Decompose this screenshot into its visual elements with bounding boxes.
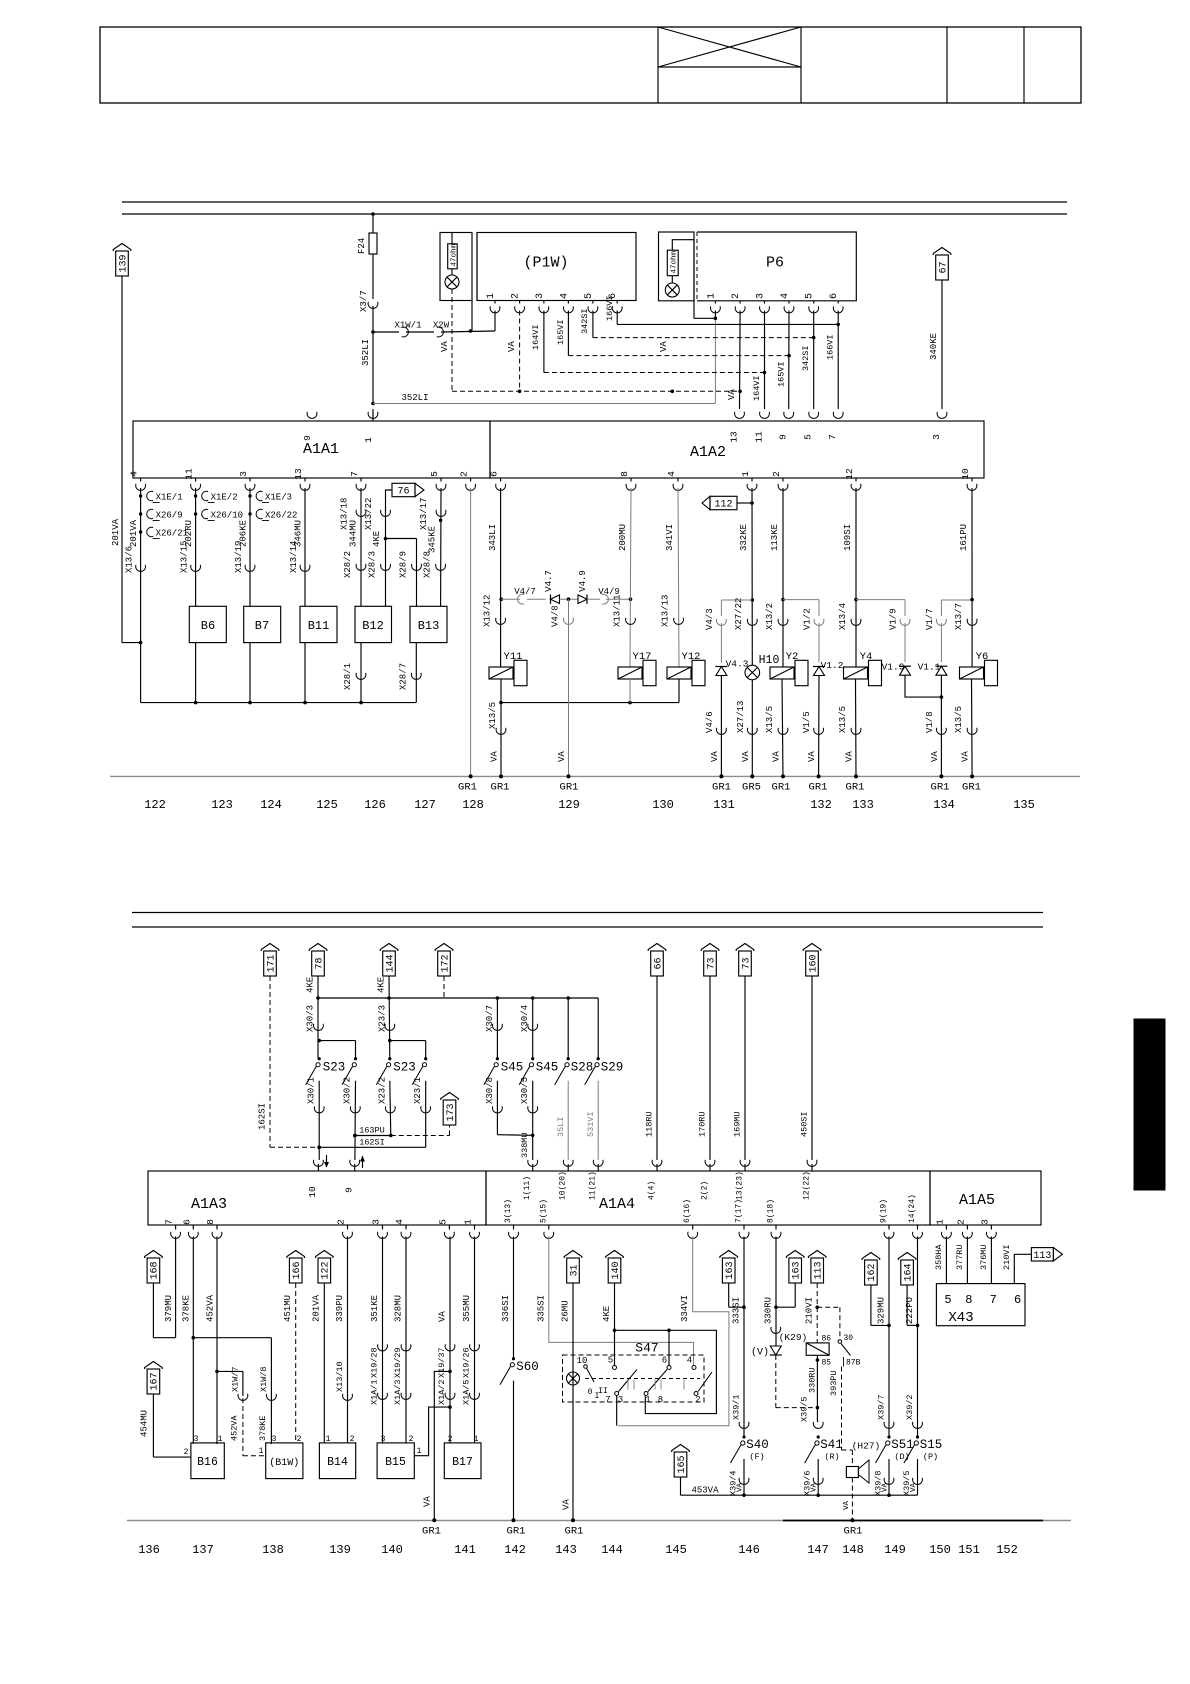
svg-text:8: 8 <box>658 1395 663 1405</box>
connector X13/12 <box>496 618 506 625</box>
svg-text:139: 139 <box>329 1543 351 1557</box>
wire 206KE pin3 <box>234 488 250 606</box>
svg-text:454MU: 454MU <box>139 1410 149 1437</box>
wire V1.9 to V1.1 ground <box>905 675 943 699</box>
svg-text:4: 4 <box>780 293 791 299</box>
wire X39/8 <box>874 1459 890 1496</box>
svg-text:GR1: GR1 <box>712 782 731 794</box>
svg-text:122: 122 <box>144 798 166 812</box>
svg-text:144: 144 <box>601 1543 623 1557</box>
ground labels GR1 <box>458 782 981 794</box>
svg-text:6: 6 <box>829 293 840 299</box>
wire 454MU to B16 pin2 <box>139 1394 191 1457</box>
svg-text:X30/8: X30/8 <box>485 1077 495 1104</box>
connector V4/9 <box>587 587 632 604</box>
svg-text:8: 8 <box>205 1219 216 1225</box>
connector X30/7 <box>492 1024 502 1031</box>
wire 210VI dashed <box>805 1283 819 1343</box>
svg-text:200MU: 200MU <box>618 524 628 551</box>
connector X13/4 <box>851 619 861 626</box>
arrow 31 <box>564 1251 582 1284</box>
connector X1E/2 <box>194 491 238 502</box>
svg-text:147: 147 <box>807 1543 829 1557</box>
wire 343LI pin6 <box>482 488 500 667</box>
arrow 122 <box>316 1251 334 1284</box>
svg-text:1(11): 1(11) <box>523 1176 532 1200</box>
svg-text:GR1: GR1 <box>560 782 579 794</box>
ground junctions <box>469 774 974 778</box>
svg-text:67: 67 <box>938 261 949 273</box>
sensor B17 <box>444 1435 481 1479</box>
arrow 67 <box>933 248 951 281</box>
svg-text:5: 5 <box>805 293 816 299</box>
connector X30/8 <box>492 1106 502 1113</box>
svg-text:172: 172 <box>440 954 451 972</box>
svg-text:VA: VA <box>562 1499 572 1510</box>
switch S45 second <box>519 1057 558 1085</box>
wire 358HA <box>934 1237 947 1284</box>
wire 335SI to S47 contact4 <box>536 1237 693 1366</box>
svg-text:149: 149 <box>884 1543 906 1557</box>
valve Y4 <box>844 651 882 686</box>
svg-text:345KE: 345KE <box>428 526 438 553</box>
connector V1/2 <box>803 608 824 662</box>
svg-text:330RU: 330RU <box>808 1367 818 1393</box>
svg-text:X39/5: X39/5 <box>800 1396 810 1422</box>
unit A1A5 box <box>930 1171 1041 1225</box>
svg-text:A1A3: A1A3 <box>191 1196 227 1213</box>
wire X39/6 <box>803 1459 819 1496</box>
ground rail top section <box>110 775 1080 777</box>
svg-text:B17: B17 <box>452 1456 473 1469</box>
P6 lamp box <box>659 232 695 301</box>
connector X13/22 <box>381 510 391 517</box>
connector X30/2 <box>350 1106 360 1113</box>
arrow 164 <box>898 1253 916 1286</box>
wire 4KE to S47 contact5 <box>602 1283 616 1366</box>
svg-text:VA: VA <box>423 1496 433 1507</box>
svg-text:333SI: 333SI <box>732 1297 742 1324</box>
lamp H10 <box>745 654 779 680</box>
svg-text:V1.1: V1.1 <box>918 662 941 673</box>
connector X26/22 <box>248 509 297 520</box>
wire 164VI P1W pin3 <box>531 311 765 373</box>
wire X39/5 S15 <box>902 1459 918 1496</box>
node V1.2 tee <box>783 600 819 616</box>
wire P6 pin2 to A1A2 pin13 <box>727 311 740 410</box>
svg-text:X19/26: X19/26 <box>461 1347 471 1378</box>
wire P6 pin5 to A1A2 pin5 <box>801 311 816 410</box>
svg-text:3: 3 <box>535 293 546 299</box>
svg-text:118RU: 118RU <box>645 1111 655 1137</box>
svg-text:X19/37: X19/37 <box>437 1347 447 1378</box>
svg-text:7: 7 <box>164 1219 175 1225</box>
connector X39/6 <box>813 1478 823 1485</box>
svg-text:X13/22: X13/22 <box>364 498 374 530</box>
svg-text:143: 143 <box>555 1543 577 1557</box>
svg-text:379MU: 379MU <box>164 1295 174 1322</box>
sensor B15 <box>377 1435 414 1479</box>
wire 35LI <box>556 1081 568 1160</box>
connector X26/21 <box>139 527 188 538</box>
svg-text:342SI: 342SI <box>801 345 811 371</box>
switch S45 first <box>484 1057 523 1085</box>
wire 451MU dashed <box>283 1283 296 1443</box>
connector X39/1 <box>739 1422 749 1429</box>
wire B7 to bus <box>248 643 252 705</box>
svg-text:10: 10 <box>960 468 971 480</box>
svg-text:452VA: 452VA <box>205 1294 215 1322</box>
svg-text:6(16): 6(16) <box>683 1199 692 1223</box>
valve Y6 <box>960 651 998 686</box>
connector X39/5 S41 <box>813 1421 823 1428</box>
connector X13/10 <box>343 1394 353 1401</box>
diode V4.9 <box>578 570 588 604</box>
node S23a split <box>317 1039 355 1058</box>
svg-text:162SI: 162SI <box>258 1103 268 1130</box>
node V diode tee <box>499 597 520 601</box>
connector X30/5 <box>528 1106 538 1113</box>
svg-text:112: 112 <box>714 500 732 511</box>
wire S45a upper <box>485 998 498 1058</box>
svg-text:VA: VA <box>807 751 817 762</box>
svg-text:4: 4 <box>394 1219 405 1225</box>
svg-text:141: 141 <box>454 1543 476 1557</box>
svg-text:X28/8: X28/8 <box>423 551 433 578</box>
wire X23/1 <box>413 1077 426 1147</box>
wire 201VA from arrow 139 <box>111 276 142 644</box>
svg-text:376MU: 376MU <box>979 1244 989 1270</box>
wire 172 dashed <box>443 976 445 998</box>
connector X26/10 <box>194 509 243 520</box>
svg-text:X27/22: X27/22 <box>734 598 744 630</box>
svg-text:X30/2: X30/2 <box>342 1077 352 1104</box>
node V4.3 tee <box>721 600 752 616</box>
diode V1.2 <box>813 660 844 676</box>
wire VA pin5 to B17 <box>437 1237 452 1443</box>
connector X39/8 <box>884 1478 894 1485</box>
sensor B13 <box>410 606 447 642</box>
wire VA P1W pin2 dashed <box>507 311 521 394</box>
svg-text:2: 2 <box>184 1448 189 1457</box>
wire 328MU pin4 to B15 <box>393 1237 406 1443</box>
svg-text:X1A/3: X1A/3 <box>393 1379 403 1405</box>
connector X13/18 <box>356 510 366 517</box>
unit A1A2 box <box>490 421 984 478</box>
svg-text:VA: VA <box>843 1500 851 1510</box>
svg-text:13: 13 <box>729 431 740 443</box>
ground junctions bottom <box>432 1518 854 1522</box>
P1W resistor 47ohm <box>448 233 459 269</box>
arrow 167 <box>145 1362 163 1395</box>
svg-text:GR1: GR1 <box>931 782 950 794</box>
svg-text:X13/5: X13/5 <box>954 706 964 733</box>
svg-text:2: 2 <box>511 293 522 299</box>
svg-text:378KE: 378KE <box>182 1295 192 1322</box>
arrow 172 <box>435 944 453 977</box>
wire 26MU through S47 lamp <box>561 1283 574 1521</box>
wire 329MU <box>876 1237 889 1438</box>
svg-text:1: 1 <box>463 1219 474 1225</box>
svg-text:1: 1 <box>645 1395 650 1405</box>
svg-text:VA: VA <box>507 341 517 352</box>
A1A1 top pin 9 <box>302 412 317 441</box>
S47 pole C <box>684 1356 712 1406</box>
connector X1W/7 <box>238 1394 248 1401</box>
svg-text:GR1: GR1 <box>844 1526 863 1538</box>
wire VA ground drop left <box>423 1371 451 1520</box>
wire 452VA dashed into B1W pin1 <box>243 1398 266 1456</box>
svg-text:3: 3 <box>381 1435 386 1444</box>
svg-text:X1A/2: X1A/2 <box>437 1379 447 1405</box>
wire 118RU <box>645 976 658 1160</box>
wire 200MU pin8 <box>612 488 631 667</box>
wire 161PU pin10 <box>954 488 972 667</box>
svg-text:170RU: 170RU <box>698 1111 708 1137</box>
svg-text:VA: VA <box>710 751 720 762</box>
svg-text:X1A/1: X1A/1 <box>369 1379 379 1405</box>
arrow 160 <box>803 944 821 977</box>
unit A1A1 box <box>133 421 490 478</box>
svg-text:GR1: GR1 <box>962 782 981 794</box>
wire 333SI <box>732 1237 745 1438</box>
switch S15 <box>904 1435 942 1463</box>
svg-text:4: 4 <box>666 471 677 477</box>
wire 109SI pin12 <box>838 488 858 667</box>
svg-text:166: 166 <box>292 1261 303 1279</box>
arrow 171 <box>261 944 279 977</box>
svg-text:358HA: 358HA <box>934 1244 944 1270</box>
svg-text:B15: B15 <box>385 1456 406 1469</box>
arrow 78 <box>309 944 327 977</box>
sensor B11 <box>300 606 337 642</box>
svg-text:169MU: 169MU <box>733 1111 743 1137</box>
wire 202RU pin11 <box>180 488 196 606</box>
svg-text:X1E/1: X1E/1 <box>156 493 183 503</box>
connector X13/13 <box>674 618 684 625</box>
page thumb index mark <box>1134 1019 1165 1190</box>
svg-text:161PU: 161PU <box>959 524 969 551</box>
svg-text:4: 4 <box>129 471 140 477</box>
switch S41 <box>805 1435 843 1463</box>
svg-text:(P1W): (P1W) <box>523 255 568 272</box>
relay ground bus <box>501 679 679 704</box>
svg-text:7: 7 <box>827 434 838 440</box>
wire X30/8 <box>485 1077 533 1135</box>
svg-text:V1/2: V1/2 <box>803 608 813 630</box>
A1A3 top pin 9 <box>344 1156 366 1193</box>
svg-text:GR1: GR1 <box>458 782 477 794</box>
svg-text:A1A1: A1A1 <box>303 441 339 458</box>
wire P6 pin6 to A1A2 pin7 <box>826 311 841 410</box>
wire 344MU pin7 <box>340 488 362 606</box>
svg-text:5: 5 <box>803 434 814 440</box>
svg-text:2: 2 <box>695 1395 700 1405</box>
svg-text:Y12: Y12 <box>682 651 701 663</box>
svg-text:V4.7: V4.7 <box>544 570 554 592</box>
svg-text:8: 8 <box>965 1293 972 1307</box>
svg-text:(F): (F) <box>749 1452 764 1462</box>
svg-text:X30/1: X30/1 <box>307 1077 317 1104</box>
svg-text:5: 5 <box>944 1293 951 1307</box>
wire Y6 ground <box>954 679 977 776</box>
connector X1E/3 <box>248 491 292 502</box>
svg-text:166VI: 166VI <box>826 334 836 360</box>
wire Y17 to bus <box>629 679 631 703</box>
svg-text:168: 168 <box>150 1261 161 1279</box>
svg-text:150: 150 <box>929 1543 951 1557</box>
svg-text:3: 3 <box>931 434 942 440</box>
diode V <box>751 1346 782 1359</box>
svg-text:3: 3 <box>756 293 767 299</box>
connector X28/9 <box>398 551 421 578</box>
svg-text:146: 146 <box>738 1543 760 1557</box>
wire 169MU <box>733 976 746 1160</box>
svg-text:(R): (R) <box>824 1452 839 1462</box>
svg-text:122: 122 <box>321 1261 332 1279</box>
svg-text:173: 173 <box>446 1103 457 1121</box>
wire X39/4 <box>729 1459 745 1496</box>
diode V4.3 <box>715 659 748 676</box>
svg-text:138: 138 <box>262 1543 284 1557</box>
svg-text:73: 73 <box>741 957 752 969</box>
wire 165VI P1W pin4 <box>556 311 789 356</box>
svg-text:3: 3 <box>371 1219 382 1225</box>
svg-text:X13/13: X13/13 <box>660 595 670 627</box>
svg-text:342SI: 342SI <box>580 308 590 334</box>
connector X30/1 <box>314 1106 324 1113</box>
valve Y17 <box>618 651 656 686</box>
svg-text:7: 7 <box>349 471 360 477</box>
svg-text:339PU: 339PU <box>335 1295 345 1322</box>
connector X1A/5 <box>470 1393 480 1400</box>
svg-text:4(4): 4(4) <box>648 1181 657 1200</box>
svg-text:377RU: 377RU <box>955 1244 965 1270</box>
svg-text:2: 2 <box>350 1435 355 1444</box>
svg-text:393PU: 393PU <box>829 1370 839 1396</box>
svg-text:4KE: 4KE <box>377 977 387 993</box>
wire V dashed to S41 <box>776 1355 819 1409</box>
svg-text:132: 132 <box>810 798 832 812</box>
node V1.1 tee <box>941 598 973 616</box>
contact 30 K29 <box>838 1334 861 1368</box>
svg-text:X30/5: X30/5 <box>520 1077 530 1104</box>
svg-text:450SI: 450SI <box>800 1111 810 1137</box>
svg-text:164: 164 <box>903 1263 914 1281</box>
svg-text:2: 2 <box>771 471 782 477</box>
svg-text:Y11: Y11 <box>504 651 523 663</box>
svg-text:126: 126 <box>364 798 386 812</box>
S47 pole B <box>644 1356 671 1406</box>
svg-text:378KE: 378KE <box>258 1415 268 1441</box>
switch S23 first <box>306 1057 357 1085</box>
svg-text:S45: S45 <box>501 1061 524 1075</box>
svg-text:GR1: GR1 <box>846 782 865 794</box>
svg-text:334VI: 334VI <box>680 1295 690 1322</box>
wire Y11 to bus <box>499 679 503 704</box>
svg-text:4KE: 4KE <box>372 531 382 547</box>
svg-text:4KE: 4KE <box>602 1306 612 1322</box>
connector X39/7 <box>884 1422 894 1429</box>
wire 4KE wrap to contact1 <box>615 1329 717 1414</box>
svg-text:162SI: 162SI <box>359 1138 385 1148</box>
svg-text:30: 30 <box>844 1334 854 1343</box>
svg-text:12: 12 <box>844 468 855 480</box>
svg-text:135: 135 <box>1013 798 1035 812</box>
svg-text:452VA: 452VA <box>229 1415 239 1441</box>
wire 341VI pin4 <box>660 488 679 667</box>
wire 332KE pin1 <box>734 488 754 666</box>
svg-text:113: 113 <box>814 1261 825 1279</box>
valve Y2 <box>770 651 808 686</box>
svg-text:210VI: 210VI <box>805 1297 815 1324</box>
svg-text:V1/7: V1/7 <box>925 608 935 630</box>
svg-text:X3/7: X3/7 <box>359 290 369 312</box>
wire 351KE pin3 to B15 <box>369 1237 382 1443</box>
wire K29 85 to S41 <box>808 1355 820 1421</box>
svg-text:S23: S23 <box>393 1061 416 1075</box>
node V1.9 tee <box>856 600 905 616</box>
svg-text:5: 5 <box>608 1356 613 1366</box>
svg-text:136: 136 <box>138 1543 160 1557</box>
wire B11 to bus <box>303 643 307 705</box>
power bus lines lower <box>132 913 1043 928</box>
wire V4/6 ground <box>705 676 726 777</box>
wire 4KE feed bus <box>316 996 598 1000</box>
connector X43 box <box>936 1284 1025 1326</box>
wire 162SI dashed from 171 <box>258 976 271 1147</box>
wire 345KE pin5 <box>419 488 442 606</box>
wire 378KE pin6 <box>182 1237 195 1445</box>
svg-text:VA: VA <box>930 751 940 762</box>
svg-text:163: 163 <box>725 1261 736 1279</box>
A1A2 bottom pins <box>489 468 977 490</box>
svg-text:6: 6 <box>181 1219 192 1225</box>
wire 163 link b <box>774 1283 795 1309</box>
svg-text:145: 145 <box>665 1543 687 1557</box>
svg-text:134: 134 <box>933 798 955 812</box>
svg-text:(K29): (K29) <box>779 1332 808 1343</box>
arrow 73 second <box>736 944 754 977</box>
power bus lines <box>122 202 1067 214</box>
svg-text:(H27): (H27) <box>852 1441 881 1452</box>
svg-text:133: 133 <box>852 798 874 812</box>
svg-text:A1A4: A1A4 <box>599 1196 635 1213</box>
svg-text:S60: S60 <box>516 1360 539 1374</box>
relay K29 coil <box>779 1332 832 1368</box>
wire 377RU <box>955 1237 968 1284</box>
svg-text:73: 73 <box>706 957 717 969</box>
svg-text:222PU: 222PU <box>905 1297 915 1324</box>
svg-text:VA: VA <box>440 341 450 352</box>
svg-text:355MU: 355MU <box>462 1295 472 1322</box>
wire 330RU <box>763 1237 776 1347</box>
svg-text:VA: VA <box>659 341 669 352</box>
A1A4 top pins <box>523 1160 817 1200</box>
svg-text:165: 165 <box>677 1455 688 1473</box>
A1A3 top pin 10 <box>307 1155 329 1198</box>
wire 166VI P1W pin6 <box>605 295 838 324</box>
svg-text:66: 66 <box>653 957 664 969</box>
node diode mid <box>560 597 579 601</box>
svg-text:335SI: 335SI <box>536 1295 546 1322</box>
svg-text:GR1: GR1 <box>772 782 791 794</box>
svg-text:GR1: GR1 <box>507 1526 526 1538</box>
wire S28 upper <box>567 998 569 1058</box>
sensor ground bus <box>141 702 417 704</box>
svg-text:330RU: 330RU <box>763 1297 773 1324</box>
svg-text:9: 9 <box>344 1187 355 1193</box>
